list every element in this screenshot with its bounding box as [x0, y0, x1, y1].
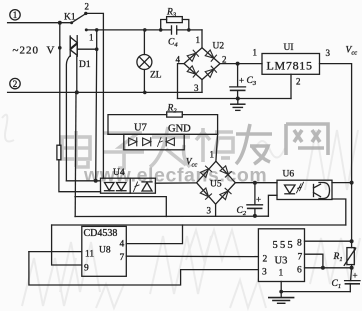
svg-text:R1: R1 — [333, 252, 343, 263]
wire: contact 2 to right rail — [86, 13, 104, 178]
wire: regulator pin2 down to ground bus — [290, 74, 292, 98]
resistor R2 on top of U7 loop — [108, 112, 218, 134]
wire: gate rail turns right into U4 — [66, 180, 100, 182]
wire: ground bus under bridge — [178, 98, 292, 100]
wire: 555 pin6 to rail — [305, 267, 352, 269]
wire: rail continues below fuse then right to U4 — [59, 160, 101, 192]
svg-text:1: 1 — [13, 10, 18, 20]
fuse box on left rail — [57, 145, 61, 160]
you — [236, 124, 272, 164]
wire: rail B down from junction to U4 — [96, 30, 97, 181]
dian — [62, 131, 90, 167]
wire: 555 pin1 stem and bottom return — [280, 282, 282, 292]
timer U3 555 box — [258, 229, 304, 282]
svg-text:2: 2 — [85, 2, 90, 12]
svg-text:1: 1 — [279, 269, 284, 279]
svg-text:7: 7 — [298, 252, 303, 262]
wire: rail from L2 down to bus — [74, 92, 77, 216]
U4 contents — [105, 178, 153, 193]
svg-text:11: 11 — [85, 250, 94, 260]
wire: contact 1 feed line — [86, 29, 171, 31]
ground below 555 — [269, 292, 294, 304]
wire: bridge pin4 to ground bus — [178, 64, 185, 99]
switch K1 contact 1 — [85, 28, 88, 31]
svg-text:U5: U5 — [210, 180, 222, 190]
opto coupler U6 box — [277, 180, 332, 199]
svg-text:1: 1 — [253, 48, 258, 58]
wire: U6 collector to Vcc rail — [332, 182, 352, 184]
node: pin8 rail junction — [350, 239, 354, 243]
wire: CD4538 pin11 input — [29, 251, 82, 253]
node: triac wire junction — [95, 47, 99, 51]
switch K1 contact 2 — [84, 12, 87, 15]
svg-text:R2: R2 — [167, 104, 178, 115]
wire: bus tap down to CD4538 pin4 — [126, 225, 182, 244]
svg-text:C3: C3 — [247, 76, 257, 87]
svg-text:+: + — [353, 271, 358, 281]
regulator U1 LM7815 box — [262, 54, 320, 75]
wire: 555 pin7 jog — [305, 254, 323, 268]
empty relay box — [75, 197, 166, 217]
wire: U5 pin2 to opto U6 — [235, 182, 277, 184]
svg-text:7: 7 — [120, 253, 125, 263]
svg-text:8: 8 — [297, 239, 302, 249]
capacitor C4 — [172, 26, 203, 34]
node: 220V tap — [58, 46, 62, 50]
svg-text:GND: GND — [168, 124, 191, 135]
wire: U6 emitter down to long bus — [332, 199, 346, 225]
svg-text:3: 3 — [262, 268, 267, 278]
svg-text:U4: U4 — [113, 168, 125, 178]
wire: regulator pin3 to Vcc rail — [320, 64, 352, 242]
wire: triac MT1 down to line 2 — [76, 56, 78, 92]
node: junction on L1 feeding down-rail — [58, 21, 62, 25]
wire: line L2 — [8, 91, 202, 93]
svg-text:U3: U3 — [275, 256, 288, 267]
node: junction to triac branch — [95, 28, 99, 32]
node: C2 top junction — [253, 181, 257, 185]
wire: U6 cathode return path — [268, 195, 277, 216]
wang — [286, 124, 328, 155]
triac D1 — [70, 36, 77, 57]
node: U4 input junction — [94, 179, 98, 183]
svg-text:555: 555 — [273, 240, 295, 251]
svg-text:2: 2 — [222, 55, 227, 65]
U7 diode box — [124, 134, 184, 150]
lamp ZL — [137, 30, 152, 93]
svg-text:K1: K1 — [64, 13, 76, 23]
wire: bridge pin3 down to L2 end — [201, 80, 203, 93]
ground below C3 — [231, 99, 245, 111]
svg-text:~220 V: ~220 V — [13, 45, 56, 57]
bridge rectifier U2 — [184, 48, 220, 80]
node: lamp ZL junction on L2 — [143, 91, 147, 95]
svg-text:CD4538: CD4538 — [84, 228, 118, 239]
wire: triac gate curve and rail down — [66, 56, 70, 181]
svg-text:1: 1 — [89, 33, 94, 43]
svg-text:U8: U8 — [99, 246, 111, 256]
U6 phototransistor — [314, 183, 330, 199]
timer U8 CD4538 box — [82, 226, 127, 276]
node: lamp top junction — [143, 28, 147, 32]
svg-text:1: 1 — [196, 35, 201, 45]
svg-text:C2: C2 — [237, 206, 247, 217]
node: C4/R3 right junction — [187, 28, 191, 32]
svg-text:3: 3 — [207, 206, 212, 216]
wire: bridge pin2 to regulator — [220, 63, 262, 65]
opto U4 box — [101, 178, 156, 193]
zi — [103, 133, 144, 168]
svg-text:2: 2 — [263, 255, 268, 265]
U6 LED — [285, 182, 304, 194]
faint zigzag watermarks — [2, 115, 360, 308]
node: pin6 rail junction — [350, 266, 354, 270]
wire: U7 right edge down to U5 pin1 — [216, 134, 218, 161]
bridge rectifier U5 — [197, 161, 236, 204]
node: pin1 ground junction — [279, 290, 283, 294]
svg-text:D1: D1 — [79, 60, 91, 70]
resistor R3 — [161, 17, 189, 30]
wire: triac MT2 horizontal — [77, 48, 97, 50]
svg-text:2: 2 — [13, 79, 18, 89]
svg-text:1: 1 — [210, 150, 215, 160]
wire: CD4538 pin7 to 555 pin2 — [126, 255, 258, 257]
wire: feedback loop from 555 pin3 — [29, 252, 259, 285]
svg-text:U2: U2 — [213, 42, 225, 52]
node: pin7/pin6 junction — [321, 266, 325, 270]
terminal 1 (circled 1) — [10, 10, 20, 20]
svg-text:C1: C1 — [332, 279, 342, 290]
fa — [150, 127, 190, 167]
node: C3 bottom junction — [236, 97, 240, 101]
svg-text:+: + — [239, 76, 244, 86]
wire: bus left end down to pin9 — [52, 225, 82, 265]
capacitor C2 — [247, 183, 263, 216]
wire: bottom bus B1 — [75, 215, 268, 217]
box U7 bottom edge — [108, 133, 218, 135]
svg-text:Vcc: Vcc — [346, 46, 358, 57]
svg-text:R3: R3 — [166, 8, 177, 19]
big CJK-style watermark glyphs (drawn as strokes) — [62, 124, 328, 168]
wire: U4 out to bridge U5 — [155, 182, 196, 184]
shao — [196, 128, 233, 162]
switch K1 blade — [72, 14, 86, 23]
svg-text:3: 3 — [194, 83, 199, 93]
svg-text:C4: C4 — [168, 38, 178, 49]
svg-text:4: 4 — [176, 55, 181, 65]
svg-text:2: 2 — [296, 77, 301, 87]
wire: 555 pin8 to rail — [305, 240, 352, 242]
capacitor C1 — [345, 268, 360, 292]
node: triac MT1 junction on L2 — [75, 90, 79, 94]
svg-text:LM7815: LM7815 — [267, 59, 313, 73]
svg-text:U6: U6 — [283, 170, 295, 180]
svg-text:3: 3 — [326, 48, 331, 58]
potentiometer R1 — [344, 241, 356, 268]
svg-text:9: 9 — [84, 264, 89, 274]
capacitor C3 — [230, 64, 246, 99]
svg-text:4: 4 — [120, 240, 125, 250]
node: C3 top junction — [236, 62, 240, 66]
node: C4/R3 left junction — [159, 28, 163, 32]
svg-text:UI: UI — [284, 43, 294, 53]
node: C2 bottom junction — [253, 214, 257, 218]
svg-text:6: 6 — [297, 265, 302, 275]
svg-text:+: + — [256, 195, 261, 205]
svg-text:ZL: ZL — [150, 71, 162, 81]
wire: down to bridge U2 pin1 — [201, 30, 203, 48]
terminal 2 (circled 2) — [10, 78, 20, 88]
wire: long trigger bus — [52, 224, 346, 226]
svg-text:U7: U7 — [134, 123, 147, 134]
switch K1 pivot — [70, 21, 73, 24]
wire: U5 pin3 stem — [215, 204, 217, 216]
node: on Vcc rail at U6 — [350, 181, 354, 185]
wire: line L1 from terminal 1 — [8, 22, 72, 24]
wire: rail from terminal1 junction down — [59, 23, 61, 145]
